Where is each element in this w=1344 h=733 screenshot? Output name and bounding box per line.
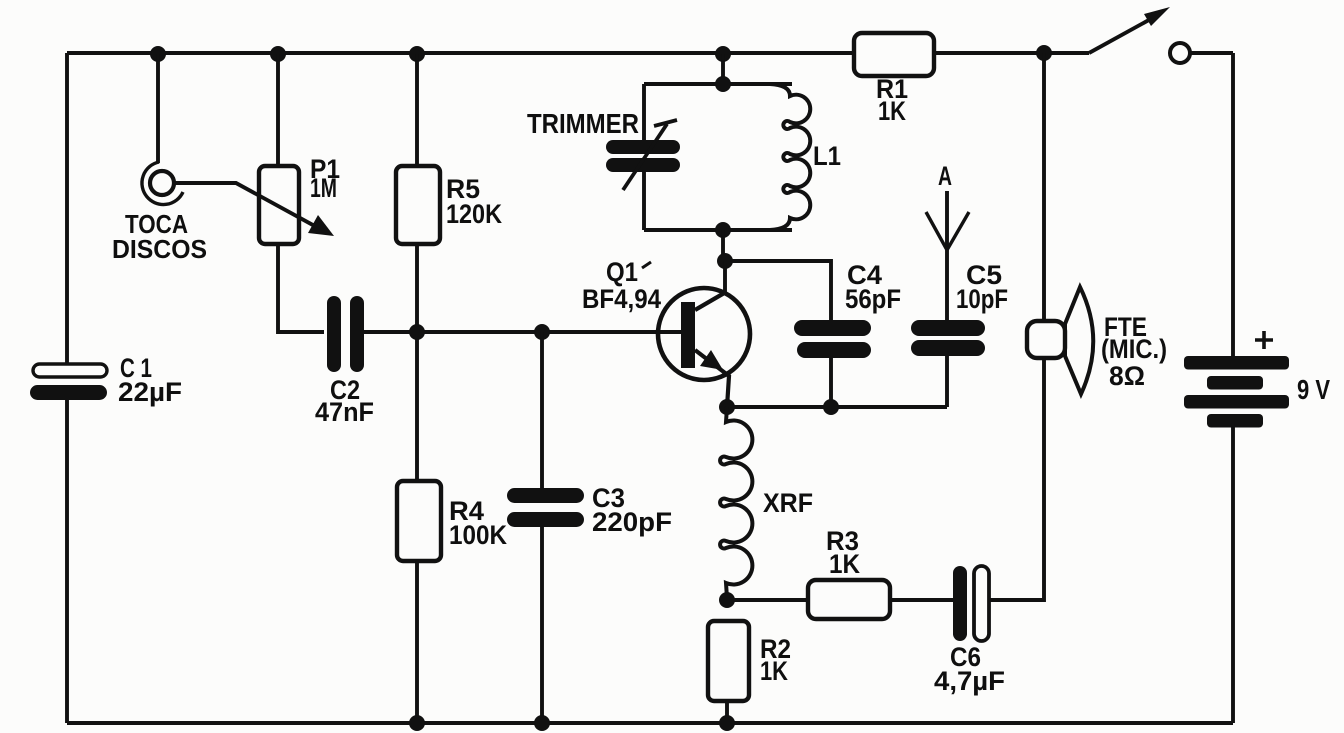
wire R3 to C6 [890,598,953,602]
capacitor C1 [30,364,107,400]
label Q1 type [582,257,661,314]
battery B1 9V [1184,356,1289,428]
jack TOCA DISCOS [142,162,183,205]
label C3 value [592,483,672,537]
resistor R2 [708,621,749,701]
speaker FTE [1027,287,1093,394]
svg-text:XRF: XRF [763,488,813,518]
wire C2 to base [364,330,683,334]
label C5 value [956,260,1008,314]
capacitor C4 [794,320,871,358]
label TOCA DISCOS [112,209,207,264]
inductor XRF [720,407,752,598]
wire R4 bottom [415,561,419,723]
node base junction R5/R4 [409,324,425,340]
node top rail junction tank [715,46,731,62]
potentiometer P1 [259,166,299,244]
svg-text:(MIC.): (MIC.) [1101,334,1167,364]
wire collector to C4 [725,261,831,320]
node top rail junction 3 [409,46,425,62]
wire tank top [644,82,792,86]
label A [938,161,952,191]
wire toca-discos drop [156,54,160,163]
speaker wire top [1042,53,1046,322]
svg-text:220pF: 220pF [592,507,672,537]
wire R5 top [415,54,419,166]
node collector junction [717,253,733,269]
wire XRF to R3 [727,598,808,602]
wire P1 bottom to C2 [278,244,324,332]
wire C5 bottom [945,356,949,407]
capacitor C6 [953,566,989,641]
svg-text:10pF: 10pF [956,284,1008,314]
label XRF [763,488,813,518]
label TRIMMER [527,108,639,139]
resistor R3 [808,580,890,619]
node bottom rail junction C3 [534,715,550,731]
label R1 value [876,74,908,126]
label C6 value [934,642,1005,696]
wire C4 bottom [829,358,833,407]
label FTE MIC [1101,312,1167,391]
switch lever S1 [1089,7,1170,53]
node bottom rail junction R2 [719,715,735,731]
svg-text:1K: 1K [829,549,860,579]
wire tank to collector node [721,230,725,261]
node tank bottom junction [715,222,731,238]
svg-text:Q1: Q1 [606,257,638,287]
wire trimmer top [642,84,646,141]
wire C3 top [540,332,544,488]
wire R5 bottom to R4 [415,244,419,481]
arrowhead wiper [308,215,334,236]
svg-text:DISCOS: DISCOS [112,234,207,264]
svg-text:4,7µF: 4,7µF [934,666,1005,696]
node emitter junction [719,399,735,415]
node C4 emitter junction [823,399,839,415]
svg-text:47nF: 47nF [315,397,374,427]
svg-text:L1: L1 [813,141,841,171]
label C2 value [315,375,374,427]
antenna A [926,191,969,321]
label R2 value [760,634,791,686]
switch terminal [1170,43,1190,63]
wire collector [723,261,727,292]
svg-text:1K: 1K [760,656,788,686]
capacitor C5 [911,320,985,356]
node tank top junction [715,76,731,92]
wire tank bottom [644,228,792,232]
stray mark next to Q1 [642,262,651,268]
wire switch to right rail [1190,51,1233,55]
label 9V [1297,374,1330,405]
node top rail junction 1 [150,46,166,62]
wire R2 bottom [725,701,729,723]
label L1 [813,141,841,171]
svg-text:9 V: 9 V [1297,374,1330,405]
node bottom rail junction R4 [409,715,425,731]
node switch junction [1036,45,1052,61]
wire tank feed [721,54,725,84]
node top rail junction 2 [270,46,286,62]
resistor R5 [396,166,440,244]
label R5 value [446,174,502,229]
svg-text:A: A [938,161,952,191]
label R3 value [826,526,860,579]
resistor R4 [397,481,441,561]
transistor Q1 [658,288,750,407]
wire emitter row [727,405,947,409]
wire left rail lower [65,400,69,723]
svg-text:120K: 120K [446,199,502,229]
wire top rail right [934,51,1089,55]
wire wiper to P1 [174,183,322,230]
label P1 value [310,154,340,203]
capacitor C3 [507,488,584,527]
wire speaker bottom to C6 [989,358,1044,600]
wire top rail left [67,51,854,55]
label C4 value [845,260,901,314]
svg-text:TRIMMER: TRIMMER [527,108,639,139]
wire C3 bottom [540,527,544,723]
svg-text:22µF: 22µF [118,377,182,407]
label C1 value [118,353,182,407]
trimmer capacitor [606,120,680,190]
wire bottom rail [67,721,1233,725]
svg-text:100K: 100K [449,520,507,550]
wire P1 top [276,54,280,166]
capacitor C2 [327,296,364,372]
svg-text:1M: 1M [310,173,337,203]
wire right rail lower [1231,423,1235,723]
label R4 value [449,496,507,550]
wire right rail upper [1231,53,1235,356]
wire left rail upper [65,53,69,365]
node XRF bottom junction [719,592,735,608]
svg-text:8Ω: 8Ω [1109,361,1145,391]
inductor L1 [770,84,810,230]
svg-text:1K: 1K [878,96,906,126]
wire trimmer bottom [642,172,646,230]
node base junction C3 [534,324,550,340]
battery plus sign [1255,331,1273,349]
svg-text:BF4,94: BF4,94 [582,284,661,314]
svg-text:56pF: 56pF [845,284,901,314]
resistor R1 [854,33,934,76]
